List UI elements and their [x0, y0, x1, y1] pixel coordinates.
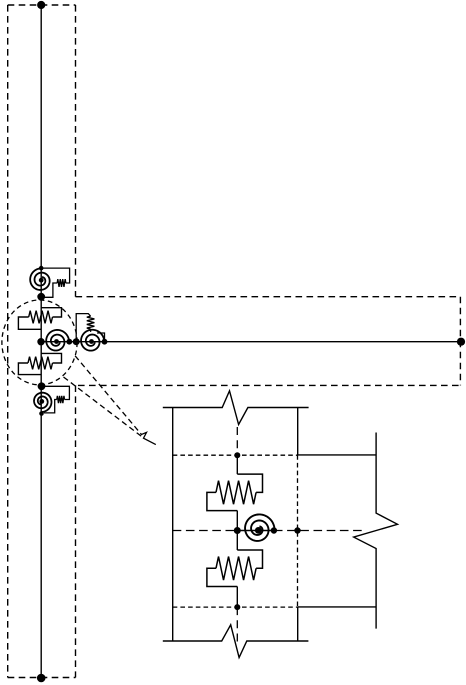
rotational spring S2 (beam end): center pin	[89, 339, 94, 344]
node: column spring lower (panel bottom)	[38, 382, 46, 390]
shear spring (panel zone, upper): upper lead	[42, 308, 62, 317]
detail: column right flange upper	[297, 408, 299, 456]
detail: node panel top	[234, 452, 240, 458]
rotational spring (column, below joint): link to damper	[42, 386, 70, 399]
detail: lower spring coil	[216, 557, 256, 581]
node: left of spring S2	[73, 338, 80, 345]
node: right of spring S1	[66, 339, 72, 345]
rotational spring S1 (joint): center pin	[54, 339, 59, 344]
detail: column centerline segment A (wire)	[236, 455, 238, 474]
rotational spring S2 (beam end): spiral	[81, 330, 104, 351]
detail: column centerline upper (dashed)	[236, 427, 238, 455]
detail: column top edge with break	[163, 391, 309, 425]
rotational spring (column, above joint): link to damper	[41, 268, 69, 283]
detail: rotational spring center pin	[255, 527, 262, 534]
detail: rigid link through spring (wire)	[237, 530, 274, 532]
detail: column centerline lower (dashed)	[236, 607, 238, 643]
detail: beam centerline right (dashed)	[274, 530, 366, 532]
detail: node at column face	[294, 527, 300, 533]
column member centerline (wire)	[40, 5, 42, 678]
spring coil above S2: stem	[90, 329, 92, 332]
spring coil above S2: right bracket	[97, 333, 105, 342]
detail: beam centerline left (dashed)	[173, 530, 238, 532]
beam member centerline (wire)	[105, 341, 462, 343]
node: column spring lower (panel top)	[37, 293, 45, 301]
rotational spring (column, above joint): link to node	[44, 283, 57, 297]
rotational spring (column, above joint): center pin	[39, 278, 44, 283]
rotational spring (column, above joint): coil	[57, 279, 66, 287]
detail: rotational spring spiral	[245, 514, 275, 540]
node: column top support	[37, 1, 45, 9]
rotational spring (column, below joint): center pin	[39, 399, 44, 404]
detail: panel zone right boundary (dashed)	[297, 455, 299, 607]
joint rigid link (wire)	[41, 341, 105, 343]
callout leader break mark	[141, 432, 156, 444]
detail: beam end cut line with break	[354, 433, 398, 629]
spring coil above S2: lead	[76, 314, 90, 342]
detail: column bottom edge with break	[163, 625, 309, 658]
detail: beam top flange	[298, 454, 376, 456]
callout leader upper (dashed)	[75, 356, 141, 435]
shear spring (panel zone, lower): lower lead	[18, 363, 41, 375]
node: column spring upper	[39, 266, 44, 271]
detail: panel zone bottom boundary (dashed)	[173, 606, 298, 608]
spring coil above S2: coil	[87, 316, 95, 329]
node: column bottom support	[37, 674, 46, 683]
detail: lower spring upper lead	[237, 550, 262, 568]
detail: column centerline segment C (wire)	[236, 587, 238, 608]
node: column spring bottom	[39, 411, 44, 416]
column outline (dashed)	[8, 5, 76, 678]
rotational spring (column, below joint): link to node	[44, 400, 57, 413]
detail: column right flange lower	[297, 607, 299, 641]
rotational spring (column, below joint): spiral	[34, 393, 51, 412]
shear spring (panel zone, upper): lower lead	[18, 317, 41, 329]
detail: node right of spiral	[271, 527, 277, 533]
rotational spring S1 (joint): spiral	[46, 330, 69, 351]
detail: column left flange	[172, 408, 174, 642]
detail: upper spring lower lead	[207, 492, 237, 510]
beam outline (dashed)	[76, 297, 461, 386]
rotational spring (column, above joint): spiral	[30, 268, 49, 290]
detail: column centerline segment B (wire)	[236, 511, 238, 550]
node: beam right end	[457, 338, 465, 346]
detail bubble (dashed ellipse)	[2, 300, 77, 385]
callout leader lower (dashed)	[64, 377, 142, 437]
detail: panel zone top boundary (dashed)	[173, 454, 298, 456]
node: beam stub start	[102, 339, 108, 345]
detail: upper spring coil	[216, 481, 256, 505]
detail: node joint center	[234, 527, 241, 534]
rotational spring (column, below joint): coil	[57, 396, 65, 403]
detail: node panel bottom	[234, 604, 240, 610]
shear spring (panel zone, lower): upper lead	[42, 353, 62, 363]
detail: upper spring upper lead	[237, 474, 262, 492]
node: joint center (column)	[37, 338, 44, 345]
shear spring (panel zone, upper): coil	[29, 311, 53, 324]
detail: lower spring lower lead	[207, 568, 237, 586]
shear spring (panel zone, lower): coil	[28, 357, 53, 370]
detail: beam bottom flange	[298, 606, 376, 608]
